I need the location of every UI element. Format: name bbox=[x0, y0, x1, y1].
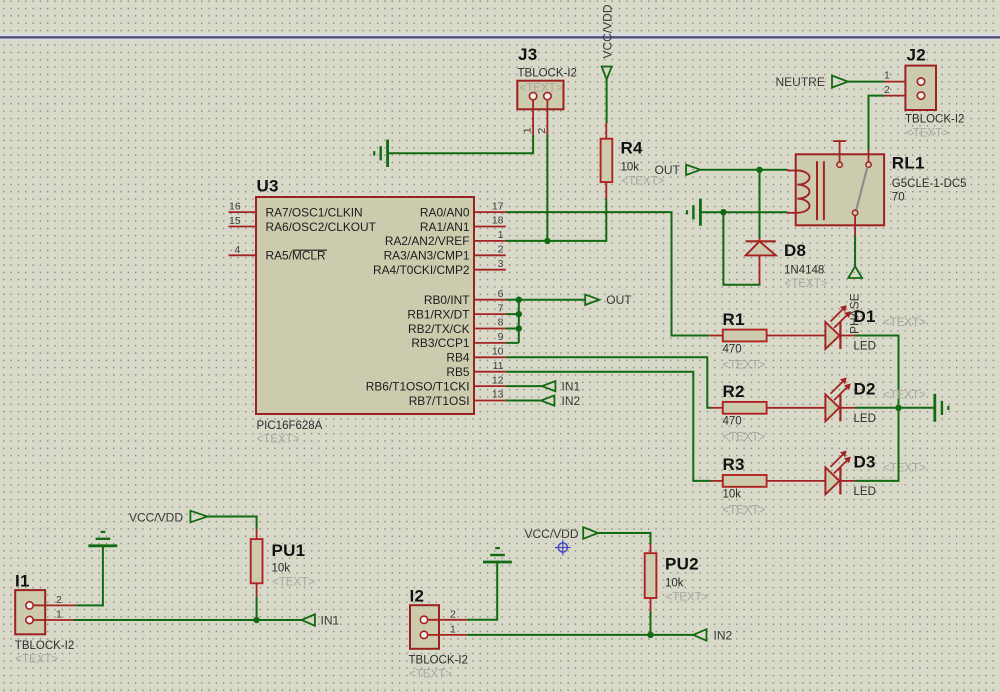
svg-text:<TEXT>: <TEXT> bbox=[785, 278, 828, 290]
resistor R4 10k bbox=[601, 123, 665, 199]
ground (relay coil) bbox=[687, 199, 700, 226]
svg-text:IN1: IN1 bbox=[562, 379, 581, 393]
svg-text:TBLOCK-I2: TBLOCK-I2 bbox=[15, 640, 74, 652]
LED D1 bbox=[825, 305, 926, 352]
wire J3 pin1 to ground bbox=[388, 135, 534, 154]
svg-text:PU1: PU1 bbox=[272, 541, 306, 560]
svg-text:U3: U3 bbox=[257, 177, 279, 196]
svg-text:RB1/RX/DT: RB1/RX/DT bbox=[407, 307, 469, 321]
svg-text:4: 4 bbox=[235, 244, 241, 256]
U3 left pin 15 RA6 bbox=[229, 226, 257, 228]
svg-text:RA3/AN3/CMP1: RA3/AN3/CMP1 bbox=[384, 249, 470, 263]
svg-text:D1: D1 bbox=[854, 307, 876, 326]
svg-text:D3: D3 bbox=[854, 452, 876, 471]
RL1 blade bbox=[856, 167, 867, 210]
svg-text:18: 18 bbox=[492, 215, 504, 227]
svg-text:2: 2 bbox=[56, 594, 62, 606]
svg-text:<TEXT>: <TEXT> bbox=[906, 128, 949, 140]
svg-text:OUT: OUT bbox=[606, 293, 632, 307]
svg-text:VCC/VDD: VCC/VDD bbox=[525, 527, 579, 541]
svg-text:1: 1 bbox=[450, 623, 456, 635]
svg-text:G5CLE-1-DC5: G5CLE-1-DC5 bbox=[892, 178, 967, 190]
terminal PHASE (below relay) bbox=[848, 266, 862, 334]
svg-text:<TEXT>: <TEXT> bbox=[883, 462, 926, 474]
svg-text:3: 3 bbox=[498, 258, 504, 270]
junction RB2 bbox=[516, 325, 522, 331]
svg-text:2: 2 bbox=[536, 128, 548, 134]
svg-text:<TEXT>: <TEXT> bbox=[257, 434, 300, 446]
svg-text:10k: 10k bbox=[621, 162, 640, 174]
svg-text:IN2: IN2 bbox=[714, 628, 733, 642]
svg-text:RA7/OSC1/CLKIN: RA7/OSC1/CLKIN bbox=[266, 205, 363, 219]
resistor R1 470 bbox=[709, 310, 766, 372]
svg-text:TBLOCK-I2: TBLOCK-I2 bbox=[905, 114, 964, 126]
svg-text:RB4: RB4 bbox=[446, 351, 470, 365]
junction RB1 bbox=[516, 311, 522, 317]
junction coil bottom / D8 return bbox=[720, 209, 726, 215]
sheet border line (blue) bbox=[0, 33, 1000, 40]
svg-text:10k: 10k bbox=[272, 563, 291, 575]
wire I1 pin1 to IN1 bbox=[73, 619, 301, 621]
svg-text:10: 10 bbox=[492, 346, 504, 358]
terminal NEUTRE bbox=[776, 75, 849, 89]
svg-text:9: 9 bbox=[498, 331, 504, 343]
svg-text:VCC/VDD: VCC/VDD bbox=[129, 511, 183, 525]
wire RA2 row bbox=[506, 240, 607, 242]
ground (I2) bbox=[483, 548, 512, 562]
svg-text:RA1/AN1: RA1/AN1 bbox=[420, 220, 470, 234]
svg-text:<TEXT>: <TEXT> bbox=[272, 577, 315, 589]
resistor R3 10k bbox=[711, 455, 767, 517]
svg-text:17: 17 bbox=[492, 200, 504, 212]
origin marker (blue crosshair) bbox=[555, 540, 571, 556]
connector J3 TBLOCK-I2 bbox=[517, 45, 577, 135]
svg-text:<TEXT>: <TEXT> bbox=[622, 176, 665, 188]
wire R2 to D2 bbox=[767, 407, 826, 409]
svg-text:1N4148: 1N4148 bbox=[784, 265, 824, 277]
svg-text:I1: I1 bbox=[15, 572, 30, 591]
terminal IN1 (bottom) bbox=[302, 613, 340, 627]
wire R1 to D1 bbox=[767, 335, 826, 337]
svg-text:<TEXT>: <TEXT> bbox=[723, 432, 766, 444]
svg-text:D2: D2 bbox=[854, 379, 876, 398]
svg-text:1: 1 bbox=[498, 229, 504, 241]
power terminal VCC/VDD (PU2) bbox=[525, 527, 599, 541]
svg-text:15: 15 bbox=[229, 215, 241, 227]
ground (LED rail) bbox=[935, 394, 949, 422]
svg-text:<TEXT>: <TEXT> bbox=[15, 654, 58, 666]
svg-text:IN2: IN2 bbox=[562, 394, 581, 408]
relay RL1 G5CLE-1-DC5 bbox=[787, 141, 967, 235]
U3 left pin 16 RA7 bbox=[229, 211, 257, 213]
svg-text:RB7/T1OSI: RB7/T1OSI bbox=[409, 394, 470, 408]
junction LED ground rail bbox=[895, 405, 901, 411]
power terminal VCC/VDD (PU1) bbox=[129, 511, 207, 525]
svg-text:<TEXT>: <TEXT> bbox=[883, 317, 926, 329]
svg-text:16: 16 bbox=[229, 201, 241, 213]
wire R4 bottom to RA2 node bbox=[605, 199, 607, 242]
RB0-RB3 bus wires bbox=[506, 300, 585, 343]
svg-text:2: 2 bbox=[450, 608, 456, 620]
wire D1 to ground rail bbox=[855, 336, 899, 408]
wire J2 pin2 to relay NO bbox=[869, 96, 885, 150]
svg-text:<TEXT>: <TEXT> bbox=[883, 389, 926, 401]
RL1 NC stub (T) bbox=[839, 141, 841, 162]
svg-text:J2: J2 bbox=[907, 46, 926, 65]
ground (left of J3) bbox=[374, 140, 387, 167]
svg-text:RA0/AN0: RA0/AN0 bbox=[420, 205, 470, 219]
svg-text:VCC/VDD: VCC/VDD bbox=[600, 4, 614, 58]
wire PU2 bottom to IN2 row bbox=[650, 612, 652, 635]
wire I2 pin1 to IN2 bbox=[467, 634, 693, 636]
svg-text:RA6/OSC2/CLKOUT: RA6/OSC2/CLKOUT bbox=[266, 220, 376, 234]
terminal IN1 (at RB6) bbox=[506, 379, 581, 393]
wire I2 pin2 to ground bbox=[467, 562, 497, 620]
svg-text:R1: R1 bbox=[723, 310, 745, 329]
svg-text:<TEXT>: <TEXT> bbox=[520, 83, 563, 95]
svg-text:RA4/T0CKI/CMP2: RA4/T0CKI/CMP2 bbox=[373, 263, 470, 277]
svg-text:IN1: IN1 bbox=[321, 613, 340, 627]
svg-text:<TEXT>: <TEXT> bbox=[409, 669, 452, 681]
svg-text:1: 1 bbox=[56, 609, 62, 621]
svg-text:8: 8 bbox=[498, 317, 504, 329]
LED D3 bbox=[825, 451, 926, 498]
wire relay pole down to PHASE terminal bbox=[854, 235, 856, 266]
svg-text:D8: D8 bbox=[784, 241, 806, 260]
svg-text:<TEXT>: <TEXT> bbox=[723, 505, 766, 517]
svg-text:OUT: OUT bbox=[655, 163, 681, 177]
connector J2 TBLOCK-I2 bbox=[884, 46, 964, 140]
svg-text:470: 470 bbox=[723, 416, 742, 428]
svg-text:R2: R2 bbox=[723, 382, 745, 401]
RL1 coil bbox=[796, 171, 810, 213]
svg-text:10k: 10k bbox=[665, 578, 684, 590]
wire D3 to ground rail bbox=[855, 408, 899, 481]
diode D8 1N4148 bbox=[746, 238, 828, 290]
svg-text:13: 13 bbox=[492, 389, 504, 401]
junction PU1/IN1 bbox=[253, 617, 259, 623]
junction coil top / D8 bbox=[756, 167, 762, 173]
svg-text:1: 1 bbox=[884, 70, 890, 82]
ground (I1) bbox=[88, 532, 117, 546]
svg-text:10k: 10k bbox=[723, 489, 742, 501]
wire ground to relay coil bottom bbox=[700, 211, 787, 213]
svg-text:LED: LED bbox=[854, 486, 876, 498]
svg-text:RB6/T1OSO/T1CKI: RB6/T1OSO/T1CKI bbox=[366, 379, 470, 393]
svg-text:470: 470 bbox=[723, 343, 742, 355]
svg-text:TBLOCK-I2: TBLOCK-I2 bbox=[518, 68, 577, 80]
svg-text:PU2: PU2 bbox=[665, 555, 699, 574]
svg-text:I2: I2 bbox=[410, 587, 425, 606]
terminal OUT (to relay coil) bbox=[655, 163, 701, 177]
svg-text:RL1: RL1 bbox=[892, 154, 925, 173]
wire VCC to PU2 top bbox=[598, 533, 651, 544]
terminal IN2 (bottom) bbox=[693, 628, 732, 642]
IC U3 PIC16F628A bbox=[229, 177, 506, 446]
junction RA2/J3.2 bbox=[544, 238, 550, 244]
wire RB4 to R2 bbox=[506, 357, 711, 408]
U3 left pin 4 RA5/MCLR bbox=[229, 254, 257, 256]
wire R3 to D3 bbox=[767, 480, 826, 482]
svg-text:RA2/AN2/VREF: RA2/AN2/VREF bbox=[385, 234, 470, 248]
RL1 core bars bbox=[816, 161, 818, 220]
svg-text:2: 2 bbox=[498, 244, 504, 256]
connector I1 TBLOCK-I2 bbox=[15, 572, 76, 666]
U3 right pins 17,18,1,2,3 bbox=[474, 211, 506, 213]
svg-text:RB2/TX/CK: RB2/TX/CK bbox=[408, 322, 470, 336]
terminal OUT (at RB0) bbox=[585, 293, 632, 307]
terminal IN2 (at RB7) bbox=[506, 394, 581, 408]
svg-text:11: 11 bbox=[493, 360, 504, 372]
svg-text:6: 6 bbox=[498, 288, 504, 300]
power terminal VCC/VDD (top) bbox=[600, 4, 614, 123]
wire D8 anode loop to coil-bottom node bbox=[723, 212, 759, 285]
wire RA0 row to R1 bbox=[506, 212, 709, 335]
wire PU1 bottom to IN1 row bbox=[256, 597, 258, 620]
junction RB0 bbox=[516, 297, 522, 303]
wire RB5 to R3 bbox=[506, 372, 711, 481]
svg-text:NEUTRE: NEUTRE bbox=[776, 75, 825, 89]
svg-text:<TEXT>: <TEXT> bbox=[723, 359, 766, 371]
LED D2 bbox=[825, 378, 926, 425]
svg-text:R4: R4 bbox=[621, 139, 644, 158]
RL1 coil pin stubs bbox=[787, 170, 796, 172]
svg-text:RB3/CCP1: RB3/CCP1 bbox=[411, 336, 470, 350]
svg-text:<TEXT>: <TEXT> bbox=[666, 592, 709, 604]
wire I1 pin2 to ground bbox=[76, 546, 103, 606]
svg-text:RB0/INT: RB0/INT bbox=[424, 293, 470, 307]
wire OUT to relay coil top bbox=[700, 169, 787, 171]
svg-text:LED: LED bbox=[854, 341, 876, 353]
resistor R2 470 bbox=[711, 382, 767, 444]
svg-text:2: 2 bbox=[884, 84, 890, 96]
RL1 NO contact bbox=[868, 150, 870, 162]
wire J3 pin2 down to RA2 node bbox=[546, 135, 548, 241]
wire D2 to ground bbox=[855, 407, 935, 409]
svg-text:PIC16F628A: PIC16F628A bbox=[257, 420, 323, 432]
wire NEUTRE to J2 pin1 bbox=[848, 81, 884, 83]
svg-text:TBLOCK-I2: TBLOCK-I2 bbox=[409, 655, 468, 667]
svg-text:J3: J3 bbox=[518, 45, 537, 64]
svg-text:1: 1 bbox=[522, 127, 534, 133]
svg-text:R3: R3 bbox=[723, 455, 745, 474]
svg-text:LED: LED bbox=[854, 413, 876, 425]
resistor PU2 10k bbox=[645, 544, 709, 612]
svg-text:7: 7 bbox=[498, 302, 504, 314]
connector I2 TBLOCK-I2 bbox=[409, 587, 468, 681]
svg-text:RB5: RB5 bbox=[446, 365, 470, 379]
junction PU2/IN2 bbox=[647, 632, 653, 638]
svg-text:70: 70 bbox=[892, 192, 905, 204]
wire D8 cathode up to coil-top node bbox=[759, 170, 761, 238]
svg-text:12: 12 bbox=[492, 374, 504, 386]
U3 right pins 6..13 bbox=[474, 299, 506, 301]
wire VCC to PU1 top bbox=[207, 517, 256, 530]
resistor PU1 10k bbox=[251, 529, 315, 597]
